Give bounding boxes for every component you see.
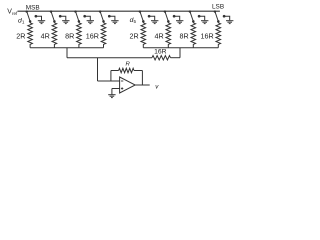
node contact S6 <box>173 15 176 18</box>
node rail junction S1 (MSB) <box>26 10 28 12</box>
svg-text:ref: ref <box>12 11 18 16</box>
wire contact-to-ground S8 (LSB) <box>224 16 230 20</box>
node rail junction S2 <box>50 10 52 12</box>
wire contact-to-ground S3 <box>85 16 91 20</box>
node contact S4 <box>108 15 111 18</box>
svg-text:LSB: LSB <box>212 4 224 11</box>
wire node to inverting input <box>97 58 99 81</box>
node pole S7 <box>192 20 195 23</box>
wire LSB summing rail <box>143 47 218 49</box>
node contact S5 <box>148 15 151 18</box>
node pole S1 (MSB) <box>29 20 32 23</box>
resistor R5 2R <box>141 23 146 48</box>
op-amp plus sign <box>121 88 123 90</box>
resistor R3 8R <box>77 23 82 48</box>
svg-text:8R: 8R <box>65 31 74 40</box>
wire MSB rail drop <box>66 48 68 58</box>
ground S4 <box>111 21 118 24</box>
node contact S1 (MSB) <box>35 15 38 18</box>
node contact S2 <box>59 15 62 18</box>
svg-text:1: 1 <box>22 20 25 25</box>
svg-text:2R: 2R <box>16 31 25 40</box>
wire pole lead S5 <box>142 21 144 22</box>
wire pole lead S6 <box>167 21 169 22</box>
wire feedback tap <box>110 71 112 82</box>
resistor R4 16R <box>101 23 106 48</box>
wire pole lead S3 <box>78 21 80 22</box>
wire feedback down to output <box>141 71 143 86</box>
svg-text:4R: 4R <box>154 31 163 40</box>
switch S3 lever <box>76 11 79 21</box>
resistor R feedback <box>119 68 134 72</box>
wire contact-to-ground S6 <box>174 16 180 20</box>
resistor R7 8R <box>191 23 196 48</box>
wire output <box>135 84 150 86</box>
node rail junction S5 <box>139 10 141 12</box>
svg-text:2R: 2R <box>129 31 138 40</box>
node pole S6 <box>167 20 170 23</box>
wire pole lead S2 <box>53 21 55 22</box>
switch S4 lever <box>100 11 103 21</box>
node contact S8 (LSB) <box>223 15 226 18</box>
svg-text:16R: 16R <box>201 31 214 40</box>
wire pole lead S7 <box>192 21 194 22</box>
wire contact-to-ground S2 <box>60 16 66 20</box>
wire pole lead S8 (LSB) <box>217 21 219 22</box>
node contact S3 <box>83 15 86 18</box>
svg-text:5: 5 <box>134 19 137 24</box>
wire Vref rail <box>18 10 220 12</box>
wire feedback left lead <box>111 70 119 72</box>
node rail junction S4 <box>99 10 101 12</box>
wire pole lead S1 (MSB) <box>29 21 31 22</box>
node pole S5 <box>142 20 145 23</box>
wire MSB summing rail <box>30 47 103 49</box>
ground S6 <box>176 21 183 24</box>
resistor R8 16R <box>216 23 221 48</box>
node pole S4 <box>102 20 105 23</box>
node rail junction S8 (LSB) <box>214 10 216 12</box>
resistor R2 4R <box>52 23 57 48</box>
svg-text:R: R <box>125 62 130 68</box>
ground S8 (LSB) <box>226 21 233 24</box>
wire pole lead S4 <box>103 21 105 22</box>
svg-text:4R: 4R <box>41 31 50 40</box>
svg-text:16R: 16R <box>86 31 99 40</box>
node rail junction S6 <box>164 10 166 12</box>
ground S1 (MSB) <box>38 21 45 24</box>
node pole S3 <box>78 20 81 23</box>
wire LSB rail drop <box>179 48 181 58</box>
switch S6 lever <box>165 11 168 21</box>
resistor R6 4R <box>166 23 171 48</box>
svg-text:MSB: MSB <box>26 5 40 12</box>
wire contact-to-ground S5 <box>149 16 155 20</box>
resistor 16R series <box>152 56 171 60</box>
wire inverting input line <box>98 80 120 82</box>
op-amp minus sign <box>121 80 123 82</box>
svg-text:8R: 8R <box>179 31 188 40</box>
switch S1 (MSB) lever <box>27 11 30 21</box>
node pole S8 (LSB) <box>217 20 220 23</box>
node contact S7 <box>198 15 201 18</box>
wire contact-to-ground S4 <box>109 16 115 20</box>
switch S8 (LSB) lever <box>215 11 218 21</box>
wire non-inverting input <box>112 88 120 90</box>
wire contact-to-ground S7 <box>199 16 205 20</box>
switch S2 lever <box>51 11 54 21</box>
wire node line to 16R <box>67 57 152 59</box>
ground S3 <box>87 21 94 24</box>
wire to ground <box>111 89 113 95</box>
ground op-amp <box>108 95 115 98</box>
op-amp U1 <box>120 77 136 93</box>
node rail junction S3 <box>74 10 76 12</box>
switch S5 lever <box>140 11 143 21</box>
svg-text:16R: 16R <box>154 49 167 56</box>
ground S7 <box>201 21 208 24</box>
resistor R1 2R <box>28 23 33 48</box>
ground S5 <box>151 21 158 24</box>
wire contact-to-ground S1 (MSB) <box>36 16 42 20</box>
node pole S2 <box>53 20 56 23</box>
node rail junction S7 <box>189 10 191 12</box>
wire feedback right lead <box>134 70 142 72</box>
ground S2 <box>62 21 69 24</box>
wire 16R right lead <box>171 57 181 59</box>
switch S7 lever <box>190 11 193 21</box>
